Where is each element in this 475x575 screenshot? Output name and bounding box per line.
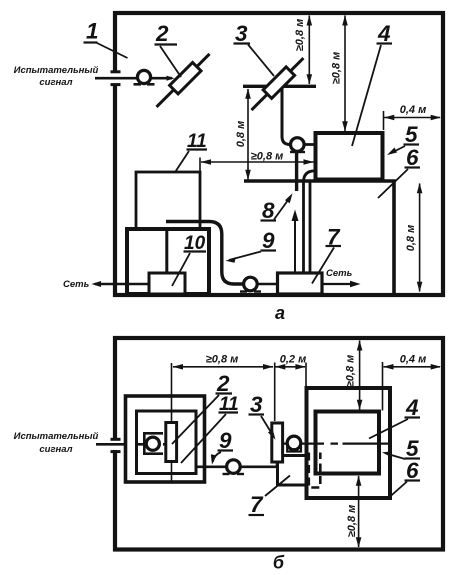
svg-text:7: 7 [250, 492, 264, 517]
wire from device 4 left side curving down (fig a) [304, 171, 316, 272]
svg-text:0,2 м: 0,2 м [280, 354, 307, 366]
wire grommet to microphone 3 (fig b) [240, 461, 277, 467]
device 4 plan (fig b) [316, 412, 380, 474]
small unit in front (fig a) [149, 273, 185, 294]
microphone 3 plan (fig b) [272, 423, 283, 462]
svg-text:Испытательный: Испытательный [14, 65, 99, 76]
dimension 0,4 m device 4 to wall (fig a) [384, 104, 442, 130]
table 6 (fig a) [244, 181, 394, 293]
svg-text:0,4 м: 0,4 м [400, 354, 427, 366]
power unit 7 plan (fig b) [278, 456, 307, 486]
svg-text:≥0,8 м: ≥0,8 м [294, 19, 306, 52]
wire inside unit (fig b) [136, 443, 166, 446]
unit 11 outline plan (fig b) [137, 411, 197, 474]
microphone axis dash line through device 4 (fig b) [283, 443, 389, 445]
room chamber (fig b) [115, 338, 443, 550]
svg-text:≥0,8 м: ≥0,8 м [345, 355, 357, 388]
svg-text:9: 9 [219, 428, 232, 453]
svg-text:≥0,8 м: ≥0,8 м [331, 52, 343, 85]
svg-text:4: 4 [377, 21, 391, 46]
cable grommet in unit (fig b) [146, 437, 159, 450]
dimension 0,8 m table height (fig a) [405, 183, 422, 292]
svg-text:6: 6 [406, 145, 419, 170]
label 5 with leader arrow (fig b) [382, 436, 420, 461]
device 4 box (fig a) [316, 133, 383, 180]
svg-text:0,8 м: 0,8 м [235, 121, 247, 148]
centre extension line through assembly (fig b) [171, 363, 173, 481]
microphone 2 plan (fig b) [166, 423, 177, 462]
label 7 with leader (fig b) [249, 476, 291, 518]
svg-text:Сеть: Сеть [326, 268, 353, 279]
label 7 with leader (fig a) [312, 225, 341, 284]
label 6 with leader (fig b) [389, 458, 420, 498]
rack unit 11 (fig a) [136, 172, 200, 229]
svg-text:4: 4 [405, 395, 419, 420]
mains arrow left (fig a) [92, 281, 102, 287]
svg-text:6: 6 [406, 458, 419, 483]
svg-text:2: 2 [155, 21, 169, 46]
shelf under microphone 3 (fig a) [243, 85, 316, 88]
svg-text:сигнал: сигнал [39, 444, 72, 455]
label 5 with leader arrow (fig a) [387, 122, 419, 155]
test signal caption (fig b) [14, 431, 99, 455]
wire grommet to box 7 (fig a) [257, 283, 278, 286]
svg-text:3: 3 [235, 21, 248, 46]
power unit 7 box (fig a) [278, 273, 323, 294]
svg-text:0,4 м: 0,4 м [400, 104, 427, 116]
cable grommet on signal wire (fig a) [134, 70, 155, 84]
room chamber 1 (fig a) [115, 13, 443, 295]
test signal wire (fig b) [96, 443, 166, 446]
dimension >=0,8 m horizontal (fig b) [173, 354, 274, 370]
svg-text:сигнал: сигнал [39, 77, 72, 88]
label 4 with leader (fig b) [369, 395, 420, 439]
dimension 0,4 m (fig b) [383, 354, 442, 411]
cable grommet on floor (fig a) [240, 277, 261, 291]
label 4 with leader (fig a) [352, 21, 392, 146]
label 10 with leader (fig a) [172, 233, 206, 286]
dimension 0,8 m shelf to table (fig a) [235, 89, 251, 181]
dimension >=0,8 m horizontal unit 11 to device 4 (fig a) [200, 151, 314, 172]
label 9 with leader arrow (fig a) [226, 228, 277, 263]
screen box 6 plan (fig b) [307, 388, 391, 498]
svg-text:а: а [275, 303, 285, 323]
label 11 with leader (fig a) [176, 131, 208, 172]
svg-text:3: 3 [250, 392, 263, 417]
wire grommet to device 4 (fig a) [297, 143, 314, 146]
label 9 with leader arrow (fig b) [211, 428, 233, 465]
dimension >=0,8 m vertical at device 4 (fig a) [331, 15, 348, 131]
cable grommet on wire (fig b) [223, 460, 245, 474]
test signal wire (fig a) [95, 76, 175, 81]
dimension >=0,8 m vertical top (fig b) [345, 340, 363, 410]
svg-text:8: 8 [262, 198, 275, 223]
holder bracket around grommet (fig b) [144, 433, 163, 453]
svg-text:≥0,8 м: ≥0,8 м [251, 151, 284, 163]
microphone cable 8 hanging (fig a) [295, 152, 298, 192]
dimension >=0,8 m vertical at shelf (fig a) [294, 15, 312, 84]
cable grommet at device 4 (fig a) [290, 138, 305, 152]
wire with up arrow into box 7 (fig a) [292, 210, 299, 273]
dimension >=0,8 m vertical bottom (fig b) [346, 476, 361, 548]
svg-text:б: б [273, 553, 285, 573]
wall feedthrough (fig b, left wall) [111, 439, 121, 451]
svg-text:2: 2 [216, 371, 230, 396]
test signal caption (fig a) [14, 65, 99, 88]
svg-text:Сеть: Сеть [63, 279, 90, 290]
mains wire right (fig a) [322, 283, 356, 285]
label 2 with leader (fig b) [172, 371, 232, 444]
divider inside unit 10 (fig a) [165, 229, 168, 273]
wire of bundle at table edge (fig a) [309, 181, 312, 272]
mains arrow right (fig a) [350, 281, 361, 287]
svg-text:9: 9 [262, 228, 275, 253]
label 2 with leader (fig a) [155, 21, 182, 77]
label 1 with leader (fig a) [84, 19, 128, 59]
label 3 with leader arrow (fig b) [249, 392, 276, 440]
hidden dashed outline of unit 7 (fig b) [309, 453, 321, 488]
microphone 2 (fig a, suspended at 45 deg) [152, 50, 214, 112]
wire from unit 11 to grommet (fig b) [196, 465, 227, 468]
label 11 with leader (fig b) [181, 394, 239, 463]
mains wire left (fig a) [95, 283, 149, 286]
svg-text:≥0,8 м: ≥0,8 м [346, 505, 358, 538]
unit 10 outline plan (fig b) [126, 396, 205, 482]
unit 10 box (fig a) [127, 229, 209, 294]
label 6 with leader (fig a) [378, 145, 420, 198]
cable grommet at screen wall (fig b) [287, 436, 301, 451]
cable 9 S-curve (fig a) [166, 222, 243, 285]
label 8 with leader arrow (fig a) [261, 193, 293, 223]
svg-text:≥0,8 м: ≥0,8 м [206, 354, 239, 366]
svg-text:5: 5 [405, 122, 418, 147]
microphone 3 (fig a, on shelf at 45 deg) [247, 54, 307, 114]
dimension 0,2 m (fig b) [275, 354, 307, 422]
svg-text:0,8 м: 0,8 м [405, 225, 417, 252]
wall feedthrough (fig a, left wall) [111, 72, 121, 85]
svg-text:Испытательный: Испытательный [14, 431, 99, 442]
label 3 with leader (fig a) [234, 21, 275, 76]
wire from microphone 3 down to grommet (fig a) [282, 88, 290, 145]
svg-text:1: 1 [86, 19, 99, 44]
